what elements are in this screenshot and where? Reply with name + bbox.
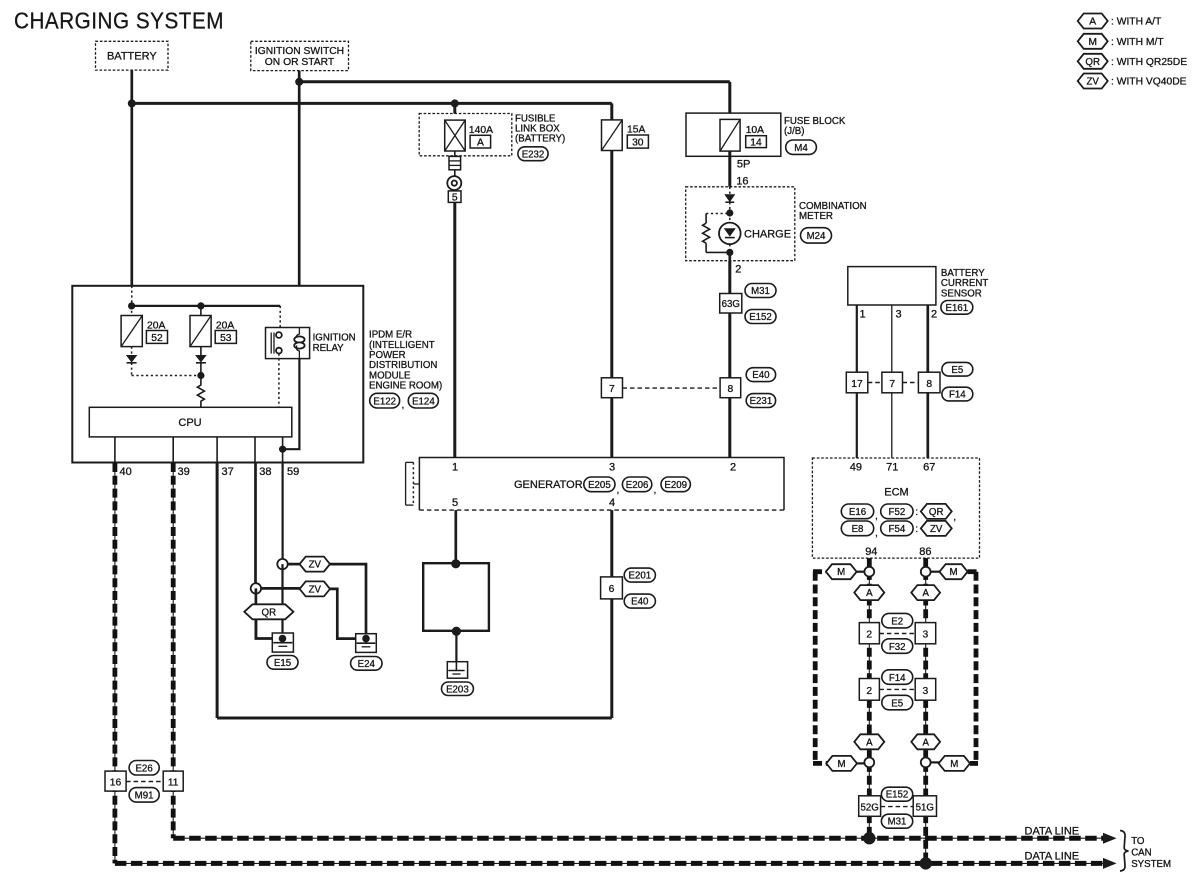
- svg-text:11: 11: [168, 777, 179, 788]
- svg-text:F14: F14: [889, 673, 906, 684]
- svg-text:6: 6: [609, 584, 615, 595]
- svg-text:M4: M4: [794, 143, 808, 154]
- svg-text:53: 53: [220, 333, 232, 344]
- svg-text:,: ,: [875, 528, 878, 539]
- node meter top: [726, 209, 733, 216]
- connector oval E40 lower: [624, 594, 655, 608]
- svg-text:ZV: ZV: [309, 584, 322, 595]
- wire ZV1 to ground E24: [330, 564, 366, 639]
- svg-text:M: M: [950, 759, 958, 770]
- svg-text:,: ,: [654, 485, 657, 496]
- connector box 8: [720, 378, 741, 398]
- IPDM label text: [369, 330, 442, 392]
- svg-text:49: 49: [850, 462, 862, 474]
- svg-text:TO: TO: [1131, 836, 1145, 847]
- svg-text::: :: [915, 524, 918, 535]
- fusible link box (battery) E232: [419, 114, 565, 161]
- grid connector 63G: [720, 294, 742, 314]
- node meter bottom: [726, 249, 733, 256]
- connector oval F14 lower: [882, 670, 913, 685]
- svg-text:40: 40: [120, 466, 132, 478]
- svg-text::: :: [915, 507, 918, 518]
- wire 38 continues below tap: [255, 588, 258, 638]
- svg-text:DATA LINE: DATA LINE: [1025, 826, 1080, 838]
- wire 40 CAN vertical: [114, 463, 116, 863]
- connector oval E40: [746, 368, 775, 382]
- connector box 3 (E2/F32): [915, 623, 936, 644]
- svg-text:E152: E152: [749, 312, 772, 323]
- node circle 86 top: [921, 567, 931, 577]
- svg-text:3: 3: [896, 309, 902, 321]
- svg-text:5: 5: [452, 193, 458, 204]
- wire sensor pin 3: [891, 305, 893, 458]
- svg-text:: WITH A/T: : WITH A/T: [1111, 17, 1162, 28]
- wire 59 vertical: [282, 463, 284, 565]
- svg-text:52: 52: [151, 333, 163, 344]
- svg-text:37: 37: [222, 466, 234, 478]
- svg-text:E206: E206: [626, 480, 649, 491]
- svg-text:4: 4: [609, 497, 615, 509]
- svg-text:67: 67: [923, 462, 935, 474]
- generator box: [419, 458, 784, 511]
- node circle 94 top: [864, 567, 874, 577]
- hexagon M top-left: [813, 564, 864, 579]
- ground E203: [442, 662, 474, 696]
- svg-text:E8: E8: [852, 524, 864, 535]
- connector box 17: [846, 372, 868, 393]
- svg-text:ZV: ZV: [1087, 77, 1100, 88]
- svg-text:: WITH M/T: : WITH M/T: [1111, 37, 1164, 48]
- svg-text:ZV: ZV: [930, 524, 943, 535]
- connector box 6: [601, 577, 623, 599]
- svg-text:E203: E203: [446, 684, 469, 695]
- svg-text:E161: E161: [945, 303, 968, 314]
- svg-text:2: 2: [931, 309, 937, 321]
- svg-text:94: 94: [865, 546, 877, 558]
- wire battery bus horizontal: [132, 102, 612, 105]
- wire ZV2 to ground E24: [330, 589, 366, 639]
- wire tap to fusible link box: [453, 103, 456, 120]
- value box A: [470, 135, 491, 148]
- legend hexagon A : WITH A/T: [1078, 14, 1162, 29]
- svg-text:: WITH QR25DE: : WITH QR25DE: [1111, 57, 1187, 68]
- svg-text:E205: E205: [588, 480, 611, 491]
- connector box 3 (F14/E5): [915, 679, 936, 701]
- svg-text:2: 2: [735, 264, 741, 276]
- node battery bus junction: [128, 99, 136, 107]
- svg-text:CAN: CAN: [1131, 848, 1151, 859]
- wire rail to relay contact dashed: [279, 306, 281, 334]
- svg-text:20A: 20A: [216, 320, 234, 331]
- CAN data line lower: [115, 862, 1103, 864]
- svg-text:IGNITION SWITCH: IGNITION SWITCH: [255, 46, 344, 57]
- M/T bypass left: [813, 572, 818, 764]
- connector oval M91: [129, 788, 159, 803]
- svg-text:15A: 15A: [627, 125, 645, 136]
- hexagon A left (upper): [854, 585, 884, 600]
- svg-text:38: 38: [259, 466, 271, 478]
- CAN data line upper: [173, 837, 1103, 839]
- svg-text:M: M: [1088, 37, 1097, 48]
- svg-text:5: 5: [452, 497, 458, 509]
- svg-text:E2: E2: [891, 616, 903, 627]
- fusible link 140A symbol: [445, 120, 466, 151]
- svg-text:E24: E24: [358, 659, 376, 670]
- svg-text:QR: QR: [262, 607, 277, 618]
- hexagon ZV (lower): [300, 581, 330, 596]
- dashed link 52G-51G: [881, 806, 914, 808]
- node 52G to data line: [863, 832, 875, 844]
- grid connector 52G: [859, 796, 881, 817]
- node circle 94 bottom: [864, 758, 874, 768]
- diode under fuse 52: [126, 347, 138, 376]
- svg-text:10A: 10A: [746, 125, 764, 136]
- svg-text:59: 59: [287, 466, 299, 478]
- svg-text:ECM: ECM: [884, 487, 908, 499]
- svg-text:20A: 20A: [147, 320, 165, 331]
- node rail fuse 53: [197, 302, 204, 309]
- connector box 7 (E40/E231 grid): [601, 378, 622, 398]
- shield loop box: [423, 559, 489, 636]
- svg-text:A: A: [866, 737, 873, 748]
- grid connector 51G: [913, 796, 936, 817]
- connector oval E26: [129, 761, 159, 776]
- IPDM internal bus rail: [132, 305, 281, 307]
- resistor branch: [706, 213, 730, 215]
- ignition relay: [266, 328, 356, 359]
- node 51G to data line: [920, 857, 932, 869]
- svg-text:SENSOR: SENSOR: [941, 288, 982, 299]
- svg-text:ENGINE ROOM): ENGINE ROOM): [369, 381, 442, 392]
- svg-text:86: 86: [919, 546, 931, 558]
- dashed link 2-3: [879, 633, 915, 635]
- svg-text:E40: E40: [631, 597, 649, 608]
- node fusible link tap: [451, 99, 459, 107]
- svg-text:E5: E5: [891, 698, 903, 709]
- hexagon ZV (upper): [300, 557, 330, 572]
- connector box 2 (F14/E5): [859, 679, 879, 701]
- svg-text:F54: F54: [889, 524, 906, 535]
- svg-text:QR: QR: [1085, 57, 1100, 68]
- node 59 junction: [279, 446, 286, 453]
- wire battery feed vertical: [130, 70, 133, 286]
- svg-text:17: 17: [851, 379, 863, 390]
- wire generator pin 5 to shield: [454, 510, 457, 564]
- wire relay coil down: [283, 359, 300, 450]
- svg-text:E5: E5: [951, 365, 963, 376]
- svg-text:52G: 52G: [860, 802, 878, 813]
- svg-text:A: A: [866, 588, 873, 599]
- svg-text:M24: M24: [807, 231, 826, 242]
- CAN wire ECM 86 down: [925, 558, 927, 863]
- node ZV tap on wire 59: [277, 559, 287, 569]
- wire ignition bus corner down to fuse block: [728, 82, 731, 120]
- connector box 2 (E2/F32): [859, 623, 879, 644]
- ECM box: [812, 458, 979, 558]
- terminal eyelet: [447, 170, 461, 191]
- svg-text:M: M: [838, 759, 846, 770]
- fuse 20A 52: [121, 306, 167, 347]
- svg-text:51G: 51G: [916, 802, 934, 813]
- battery box: [96, 41, 169, 70]
- svg-text:: WITH VQ40DE: : WITH VQ40DE: [1111, 77, 1187, 88]
- dashed link diodes: [132, 375, 201, 377]
- arrow data line lower: [1103, 858, 1117, 869]
- svg-text:IGNITION: IGNITION: [313, 333, 356, 344]
- wire sensor pin 2: [926, 305, 929, 458]
- svg-text:E26: E26: [135, 764, 152, 775]
- svg-text:M91: M91: [135, 791, 154, 802]
- svg-text:1: 1: [452, 462, 458, 474]
- svg-text:63G: 63G: [722, 299, 740, 310]
- connector oval E152 (CAN): [881, 787, 912, 801]
- wire 37 vertical: [216, 463, 219, 719]
- wire 15A fuse to generator pin 3: [610, 151, 613, 458]
- hexagon A left (lower): [854, 734, 884, 749]
- internal wire top: [729, 187, 731, 194]
- connector oval E5: [942, 362, 973, 376]
- IPDM internal battery feed dashed: [131, 286, 133, 306]
- svg-text:E122: E122: [373, 396, 396, 407]
- svg-text:E209: E209: [664, 480, 687, 491]
- svg-text:,: ,: [617, 485, 620, 496]
- svg-text:5P: 5P: [737, 159, 750, 171]
- wire ZV1 branch: [288, 563, 300, 566]
- svg-text:3: 3: [609, 462, 615, 474]
- svg-text:(J/B): (J/B): [784, 126, 804, 137]
- svg-text:RELAY: RELAY: [313, 343, 345, 354]
- connector oval E152: [745, 310, 776, 324]
- ground E24: [351, 634, 382, 671]
- svg-text:2: 2: [866, 686, 872, 697]
- legend hexagon QR : WITH QR25DE: [1078, 54, 1188, 69]
- connector oval F32: [882, 639, 913, 654]
- node ZV tap on wire 38: [251, 583, 261, 593]
- svg-text:A: A: [922, 737, 929, 748]
- hexagon M top-right: [931, 564, 978, 579]
- connector oval E124: [408, 393, 438, 408]
- svg-text:,: ,: [875, 511, 878, 522]
- svg-text:CPU: CPU: [178, 417, 201, 429]
- resistor to CPU: [197, 376, 204, 408]
- wire ignition feed vertical: [298, 71, 301, 328]
- connector oval E122: [370, 393, 400, 408]
- svg-text:F32: F32: [889, 642, 906, 653]
- svg-text:30: 30: [632, 138, 644, 149]
- svg-text:ON OR START: ON OR START: [265, 57, 335, 68]
- ground E15: [267, 633, 298, 669]
- connector oval E232: [518, 147, 548, 161]
- wire ZV2 branch: [261, 587, 300, 590]
- node diode junction: [197, 372, 204, 379]
- dashed link 17-7: [868, 382, 882, 384]
- node ignition bus junction: [295, 78, 303, 86]
- svg-text:GENERATOR: GENERATOR: [514, 479, 583, 491]
- wire fuse block to combination meter: [728, 151, 731, 187]
- dashed link 7 to 8: [623, 387, 721, 389]
- legend hexagon ZV : WITH VQ40DE: [1078, 74, 1187, 89]
- M/T bypass right: [974, 572, 979, 764]
- IPDM E/R box: [72, 286, 363, 463]
- svg-text:3: 3: [923, 630, 929, 641]
- hexagon A right (lower): [911, 734, 940, 749]
- connector oval M31: [745, 284, 776, 298]
- arrow data line upper: [1103, 833, 1117, 844]
- hexagon A right (upper): [911, 585, 940, 600]
- wire 38 into ground E15: [256, 619, 283, 638]
- svg-text:E16: E16: [849, 507, 866, 518]
- svg-text:M31: M31: [751, 286, 770, 297]
- svg-text:2: 2: [866, 630, 872, 641]
- wire shield to ground: [455, 631, 457, 662]
- svg-text:E40: E40: [752, 370, 770, 381]
- connector box 8 (sensor): [918, 372, 940, 393]
- diode: [724, 194, 735, 202]
- connector oval E201: [624, 568, 655, 582]
- svg-text:CHARGE: CHARGE: [744, 228, 791, 240]
- brace to CAN system: [1120, 831, 1129, 872]
- wire bus corner down to 15A fuse: [610, 103, 613, 121]
- connector oval F14: [942, 387, 973, 401]
- fuse block (J/B) M4: [686, 113, 846, 156]
- svg-text:A: A: [477, 137, 484, 148]
- svg-text:M: M: [837, 567, 845, 578]
- charge lamp LED: [729, 213, 731, 223]
- svg-text:,: ,: [402, 400, 405, 411]
- svg-text:ZV: ZV: [309, 560, 322, 571]
- connector oval E5 lower: [882, 695, 913, 710]
- svg-text:39: 39: [178, 466, 190, 478]
- svg-text:A: A: [1089, 17, 1096, 28]
- connector box 7 (sensor): [882, 372, 903, 393]
- grid connector 16: [105, 771, 126, 791]
- svg-text:A: A: [922, 588, 929, 599]
- connector oval E2: [882, 613, 913, 628]
- node rail fuse 52: [128, 302, 135, 309]
- fuse 15A 30: [602, 120, 649, 151]
- svg-text:METER: METER: [799, 211, 833, 222]
- svg-text:8: 8: [926, 379, 932, 390]
- svg-text:71: 71: [886, 462, 898, 474]
- hexagon M bottom-left: [813, 756, 865, 771]
- svg-text:1: 1: [860, 309, 866, 321]
- diode under fuse 53: [195, 347, 207, 376]
- svg-text:F14: F14: [949, 390, 966, 401]
- wire 38 vertical: [254, 463, 257, 589]
- legend hexagon M : WITH M/T: [1078, 34, 1165, 49]
- dashed link 7-8: [903, 382, 919, 384]
- wire 59 continues below tap: [281, 564, 283, 638]
- svg-text:BATTERY: BATTERY: [107, 51, 157, 63]
- generator connector bracket: [406, 462, 420, 505]
- connector oval E231: [746, 394, 775, 408]
- ignition switch box: [251, 41, 349, 70]
- CAN wire ECM 94 down: [868, 558, 870, 838]
- connector oval M31 (CAN): [881, 814, 912, 828]
- svg-text:16: 16: [736, 175, 748, 187]
- svg-text:,: ,: [953, 512, 956, 523]
- grid connector 11: [163, 771, 183, 791]
- dashed link 16-11: [126, 781, 163, 783]
- svg-text:2: 2: [730, 462, 736, 474]
- svg-text:E232: E232: [522, 149, 545, 160]
- CPU box: [89, 407, 291, 437]
- fusible link lower terminal stack: [449, 151, 461, 170]
- svg-text:QR: QR: [929, 507, 944, 518]
- svg-text:F52: F52: [889, 507, 906, 518]
- CPU pins to box edge: [114, 437, 116, 463]
- svg-text:E152: E152: [886, 790, 909, 801]
- svg-text:140A: 140A: [469, 125, 493, 136]
- svg-text:E124: E124: [412, 396, 435, 407]
- wire fusible link to generator pin 1: [453, 202, 456, 457]
- svg-text:M: M: [949, 567, 957, 578]
- wire generator pin 4 down: [610, 510, 613, 718]
- svg-text:(BATTERY): (BATTERY): [515, 134, 565, 145]
- svg-text:E15: E15: [274, 658, 291, 669]
- wire sensor pin 1: [856, 305, 858, 458]
- svg-text:16: 16: [110, 777, 122, 788]
- fuse 20A 53: [190, 306, 236, 347]
- connector box 5: [448, 191, 461, 204]
- svg-text:7: 7: [889, 379, 895, 390]
- combination meter M24: [686, 187, 867, 261]
- svg-text:CHARGING SYSTEM: CHARGING SYSTEM: [14, 8, 224, 34]
- wire meter to generator pin 2: [728, 261, 731, 458]
- wire ignition bus horizontal: [299, 80, 730, 83]
- node circle 86 bottom: [921, 758, 931, 768]
- hexagon M bottom-right: [931, 756, 978, 771]
- svg-text:8: 8: [728, 384, 734, 395]
- svg-text:SYSTEM: SYSTEM: [1131, 859, 1171, 870]
- hexagon QR around wires 38/59: [244, 604, 293, 619]
- svg-text:3: 3: [923, 686, 929, 697]
- wire L terminal horizontal to IPDM pin 37: [217, 717, 612, 720]
- wire 39 CAN vertical: [172, 463, 174, 838]
- wire relay contact to CPU dashed: [278, 354, 280, 408]
- svg-text:14: 14: [750, 138, 762, 149]
- svg-text:7: 7: [609, 384, 615, 395]
- svg-text:E231: E231: [750, 396, 773, 407]
- svg-text:E201: E201: [628, 571, 651, 582]
- battery current sensor box: [848, 267, 989, 315]
- svg-text:DATA LINE: DATA LINE: [1025, 851, 1080, 863]
- dashed link 2-3 lower: [879, 688, 915, 690]
- svg-text:M31: M31: [888, 817, 907, 828]
